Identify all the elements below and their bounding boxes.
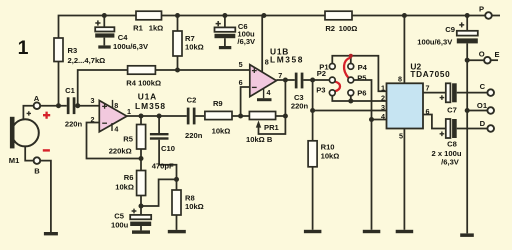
wire R3 bottom to node A line (58, 62, 60, 106)
op-amp U1A (99, 91, 166, 132)
wire to node O1 (467, 110, 487, 112)
svg-text:8: 8 (398, 75, 402, 84)
node O (479, 49, 491, 63)
svg-text:100u/6,3V: 100u/6,3V (113, 42, 149, 51)
wire to U2 pin3 (313, 110, 387, 112)
node P4 (348, 63, 368, 72)
pin 8 stub U1A (112, 100, 114, 108)
svg-text:A: A (34, 94, 40, 103)
svg-text:R10: R10 (321, 143, 335, 152)
pin 5 wire U2 to ground (403, 129, 405, 230)
node junction C3/R10 (310, 78, 315, 83)
svg-text:4: 4 (381, 112, 385, 121)
svg-text:U1A: U1A (138, 91, 157, 101)
svg-text:5: 5 (399, 131, 403, 140)
node junction pin7/PR1 (283, 78, 288, 83)
node junction rail/C4 (102, 13, 107, 18)
resistor R4 (78, 66, 178, 106)
svg-text:O: O (479, 49, 485, 58)
svg-text:R4 100kΩ: R4 100kΩ (126, 78, 161, 87)
node C (480, 82, 494, 96)
ground below U2 pin5 (396, 230, 414, 233)
svg-text:D: D (480, 119, 486, 128)
capacitor C7 (440, 83, 457, 114)
wire PR1 to U1B pin7 (284, 80, 286, 116)
node junction R6/C5 (139, 204, 144, 209)
svg-text:7: 7 (278, 71, 282, 80)
wire P terminal stub (492, 15, 500, 17)
wire U1B pin8 supply (261, 16, 263, 72)
ground below C4 (98, 45, 110, 48)
node P2 (317, 69, 335, 83)
wire P3/P6 to U2 pin2 (332, 96, 386, 101)
node red junction above P4 (349, 54, 353, 58)
wire mic top to node A (23, 106, 33, 120)
svg-text:R9: R9 (213, 99, 223, 108)
svg-text:1: 1 (381, 84, 385, 93)
wire C3 to P2 (303, 79, 329, 81)
svg-text:/6,3V: /6,3V (441, 157, 460, 166)
wire P4 riser (350, 56, 352, 64)
resistor R8 (172, 179, 204, 230)
resistor R2 (325, 11, 357, 33)
wire 0V column (466, 60, 468, 233)
capacitor C9 (417, 16, 478, 61)
svg-text:C1: C1 (65, 86, 75, 95)
wire node O stub (491, 59, 498, 61)
svg-text:2: 2 (381, 93, 385, 102)
svg-text:LM358: LM358 (270, 55, 304, 65)
capacitor C2 (185, 96, 203, 140)
wire V+ rail left segment (59, 16, 137, 39)
node junction PR1 wiper (283, 114, 288, 119)
node P5 (348, 74, 367, 83)
svg-text:7: 7 (426, 84, 430, 93)
capacitor C8 (432, 119, 462, 166)
wire C7 to node C (457, 92, 488, 94)
svg-text:220n: 220n (185, 131, 203, 140)
svg-text:2,2...4,7kΩ: 2,2...4,7kΩ (68, 56, 106, 65)
svg-text:4: 4 (267, 88, 271, 97)
node junction output/R5 (139, 114, 144, 119)
wire C1 to U1A pin3 (75, 105, 99, 107)
wire U2 pin4 stub (372, 119, 387, 121)
wire V+ rail middle segment (162, 15, 326, 17)
wire U1B pin6 (241, 87, 250, 116)
ground below P5 column (363, 230, 381, 233)
pin 4 stub U1A (111, 123, 113, 131)
svg-text:P4: P4 (358, 63, 368, 72)
capacitor C5 (111, 209, 151, 231)
svg-text:6: 6 (426, 107, 430, 116)
node junction R7/R4/pin5 (175, 68, 180, 73)
wire C8 to node D (457, 128, 488, 130)
svg-text:5: 5 (239, 60, 243, 69)
svg-text:C8: C8 (447, 139, 457, 148)
svg-text:P5: P5 (357, 74, 367, 83)
svg-text:R6: R6 (124, 173, 134, 182)
svg-text:C: C (480, 82, 486, 91)
capacitor C3 (291, 73, 309, 111)
node junction R5/R6/pin2 (139, 156, 144, 161)
svg-text:P: P (479, 5, 484, 14)
microphone M1 (9, 111, 39, 165)
svg-text:10kΩ B: 10kΩ B (246, 135, 273, 144)
resistor R9 (205, 99, 250, 135)
svg-text:C10: C10 (161, 144, 175, 153)
node junction rail/C6 (222, 13, 227, 18)
node junction R4 tap (75, 103, 80, 108)
pin 4 stub U1B (263, 89, 265, 99)
svg-text:LM358: LM358 (135, 101, 166, 111)
node junction rail/U1B pin8 (261, 13, 266, 18)
red jumper wire P2 to P3 (335, 82, 340, 92)
ground below R10 (304, 230, 322, 233)
node junction pin4 (369, 117, 374, 122)
svg-text:B: B (34, 167, 40, 176)
ground below R8 (168, 230, 186, 233)
resistor R3 (54, 38, 105, 65)
ground below U1B pin4 (257, 98, 272, 101)
node P6 (348, 89, 367, 98)
capacitor C1 (65, 86, 83, 128)
op-amp U1B (250, 46, 304, 96)
svg-text:R2: R2 (325, 24, 335, 33)
ground below 0V column (460, 233, 474, 237)
red minus polarity mark (43, 149, 50, 151)
svg-text:/6,3V: /6,3V (237, 37, 256, 46)
svg-text:1: 1 (18, 37, 29, 59)
red jumper wire P4 node to P5 (344, 58, 350, 78)
node junction C10/R8 (174, 177, 179, 182)
resistor R6 (115, 171, 145, 216)
svg-text:P2: P2 (317, 69, 326, 78)
svg-text:R3: R3 (68, 46, 78, 55)
wire U2 pin8 supply (403, 16, 405, 84)
node junction R3 tap (56, 103, 61, 108)
node A (34, 94, 41, 109)
wire jumper top link (332, 56, 386, 92)
node junction rail/R7 (175, 13, 180, 18)
wire to node O (467, 59, 484, 61)
red plus polarity mark (43, 112, 50, 119)
wire P6 riser (350, 96, 352, 101)
svg-text:E: E (495, 50, 500, 59)
svg-text:220n: 220n (291, 101, 309, 110)
resistor R7 (173, 16, 204, 71)
capacitor C6 (215, 16, 257, 47)
ground below C5 (132, 230, 150, 233)
resistor R1 (133, 11, 163, 32)
svg-text:10kΩ: 10kΩ (185, 202, 204, 211)
capacitor C4 (95, 16, 149, 51)
potentiometer PR1 (246, 112, 285, 145)
svg-text:O1: O1 (477, 101, 488, 110)
node P (479, 5, 492, 19)
node junction P6/pin2 (348, 99, 353, 104)
svg-text:3: 3 (91, 96, 95, 105)
svg-text:C2: C2 (187, 96, 197, 105)
svg-text:PR1: PR1 (264, 123, 280, 132)
svg-text:100u/6,3V: 100u/6,3V (417, 37, 453, 46)
svg-text:220kΩ: 220kΩ (109, 146, 132, 155)
node B (34, 157, 41, 175)
capacitor C10 (150, 116, 177, 179)
svg-text:C9: C9 (445, 25, 455, 34)
wire U1A pin2 feedback (87, 123, 142, 159)
wire U1A output (127, 115, 187, 117)
svg-text:3: 3 (381, 103, 385, 112)
pin 7 wire U2 (423, 92, 446, 94)
svg-text:4: 4 (114, 125, 118, 134)
svg-text:10kΩ: 10kΩ (185, 43, 204, 52)
wire mic bottom to node B (25, 146, 34, 160)
node junction rail/U2 supply (402, 13, 407, 18)
svg-text:100u: 100u (111, 221, 129, 230)
node junction output/C10 (157, 114, 162, 119)
svg-text:470pF: 470pF (152, 162, 174, 171)
svg-text:100Ω: 100Ω (339, 24, 358, 33)
svg-text:10kΩ: 10kΩ (212, 126, 231, 135)
svg-text:M1: M1 (9, 156, 20, 165)
IC U2 TDA7050 (387, 62, 451, 129)
pin 6 wire U2 (423, 115, 446, 129)
resistor R5 (109, 116, 146, 171)
ground below microphone (44, 232, 58, 235)
svg-text:R5: R5 (123, 135, 133, 144)
node P3 (316, 86, 335, 96)
node junction rail/C9 (465, 13, 470, 18)
svg-text:6: 6 (239, 78, 243, 87)
wire C3 column down (312, 80, 314, 141)
wire V+ rail right segment (352, 15, 485, 17)
node junction pin3 tap (310, 108, 315, 113)
wire P5 to U2 pin4 and ground (354, 80, 372, 230)
svg-text:P6: P6 (357, 89, 366, 98)
node O1 (477, 101, 494, 114)
svg-text:R1: R1 (133, 23, 143, 32)
resistor R10 (308, 141, 339, 230)
svg-text:1kΩ: 1kΩ (149, 23, 164, 32)
svg-text:TDA7050: TDA7050 (410, 70, 450, 79)
node junction 0V/O1 (465, 108, 470, 113)
svg-text:8: 8 (114, 101, 118, 110)
wire C2 to R9 (196, 115, 205, 117)
svg-text:10kΩ: 10kΩ (115, 183, 134, 192)
wire R6 node to R8 node (141, 179, 177, 206)
wire node B to ground (40, 161, 51, 232)
svg-text:C5: C5 (114, 211, 124, 220)
svg-text:220n: 220n (65, 120, 83, 129)
node junction 0V/O (465, 58, 470, 63)
wire node A to C1 (40, 105, 67, 107)
wire U1B pin7 output (276, 79, 294, 81)
wire node to U1B pin5 (178, 69, 250, 71)
ground below C6 (219, 46, 231, 49)
node P1 (319, 63, 335, 72)
svg-text:10kΩ: 10kΩ (321, 152, 340, 161)
node D (480, 119, 494, 132)
node junction R9/PR1/pin6 (238, 114, 243, 119)
svg-text:1: 1 (127, 107, 131, 116)
svg-text:8: 8 (265, 57, 269, 66)
svg-text:C7: C7 (447, 106, 457, 115)
svg-text:P3: P3 (316, 86, 325, 95)
